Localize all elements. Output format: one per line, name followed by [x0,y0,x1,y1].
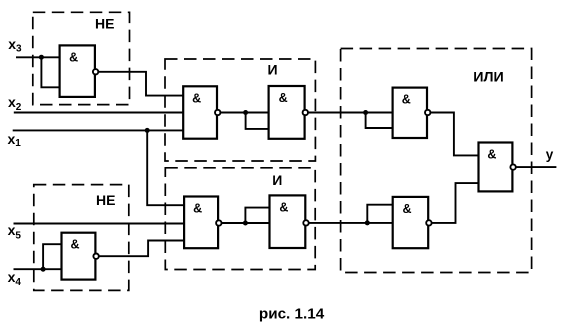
svg-text:И: И [272,172,282,188]
svg-text:НЕ: НЕ [95,16,114,32]
svg-text:&: & [70,238,79,252]
svg-text:&: & [192,91,201,105]
svg-text:&: & [487,148,496,162]
svg-text:ИЛИ: ИЛИ [473,69,504,85]
svg-text:НЕ: НЕ [96,192,115,208]
svg-text:&: & [279,91,288,105]
svg-text:&: & [193,202,202,216]
svg-text:&: & [69,50,78,64]
svg-text:рис. 1.14: рис. 1.14 [259,306,324,322]
svg-text:&: & [279,200,288,214]
svg-text:И: И [268,61,278,77]
svg-text:&: & [402,93,411,107]
svg-text:y: y [546,147,554,162]
svg-text:&: & [402,202,411,216]
